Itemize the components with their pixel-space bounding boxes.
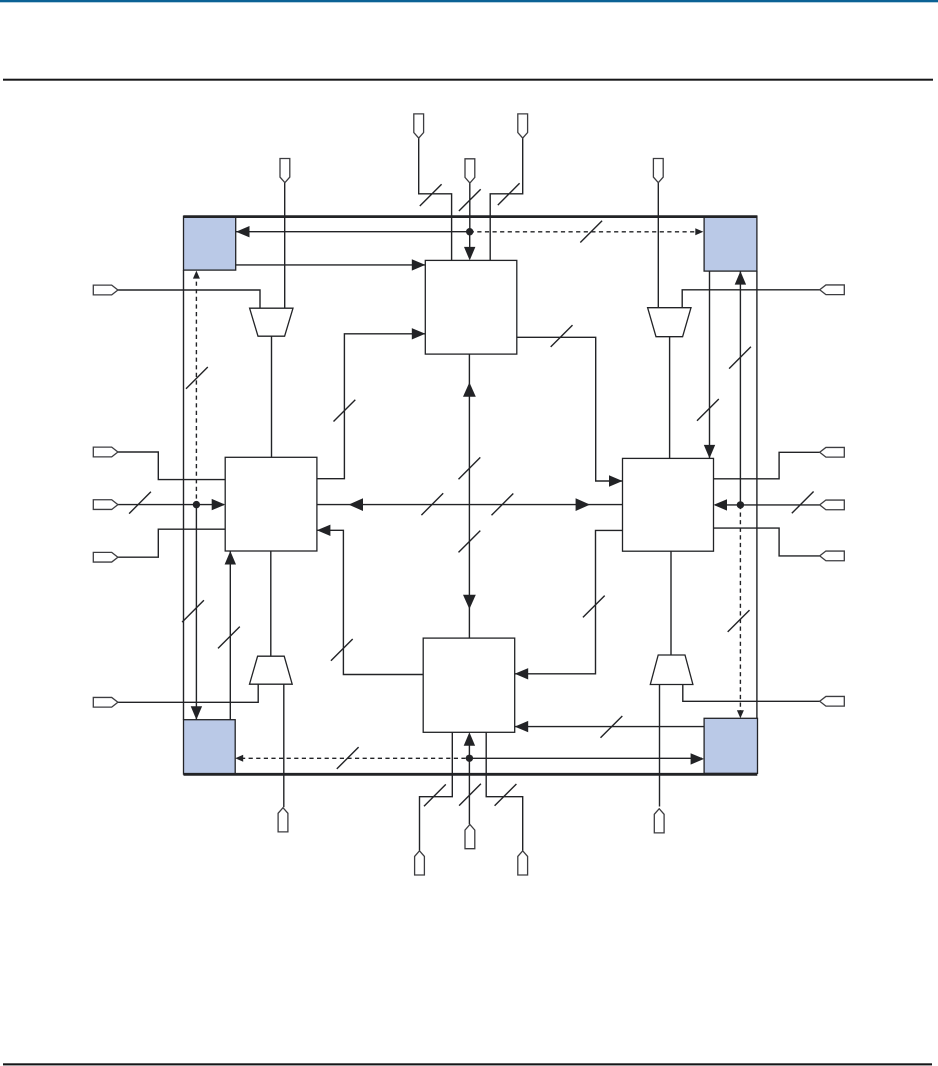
wire pad TRmux to mux top-right xyxy=(657,183,659,308)
bus slash R2 xyxy=(792,492,814,514)
pad T3 xyxy=(518,114,528,138)
wire right vertical rail xyxy=(756,271,758,718)
wire pad T1 to top block xyxy=(419,138,452,260)
arrow into top block left lower xyxy=(412,328,426,339)
pad R1 xyxy=(820,447,845,457)
bus slash R-B xyxy=(583,596,605,618)
arrow into bottom block bottom xyxy=(464,732,475,746)
bus slash L-T xyxy=(334,400,356,422)
wire top rail xyxy=(184,215,758,218)
dashed wire node A to top-right corner block xyxy=(470,231,698,233)
arrow small into top-left corner block bottom xyxy=(193,271,200,279)
wire top block to right block xyxy=(517,337,623,481)
wire center vertical bus xyxy=(468,354,470,638)
wire top-right corner block to right block xyxy=(709,271,711,458)
wire demux bottom-left to pad BLmux xyxy=(283,684,285,807)
wire bottom rail xyxy=(184,773,758,776)
arrow center bus left xyxy=(349,498,363,511)
arrow center bus right xyxy=(576,498,590,511)
bus slash center-v lower xyxy=(459,531,481,553)
bus slash block-BR xyxy=(601,716,623,738)
arrow into left block bottom xyxy=(225,551,236,565)
bus slash B-L xyxy=(331,639,353,661)
wire node D solid right xyxy=(469,757,702,759)
wire left vertical rail xyxy=(183,270,185,720)
pad R4 xyxy=(820,696,845,706)
arrow small into bottom-right corner block top xyxy=(737,710,744,718)
pad TLmux xyxy=(280,159,290,183)
pad B2 xyxy=(465,825,475,849)
wire pad TLmux to mux top-left xyxy=(284,183,286,309)
pad R2 xyxy=(820,500,845,510)
header rule xyxy=(3,79,933,81)
mux top-left xyxy=(250,308,293,336)
bus slash B1 xyxy=(424,784,446,806)
pad BLmux xyxy=(278,808,288,832)
wire mux top-left output xyxy=(271,336,273,457)
wire node A solid left xyxy=(236,231,470,233)
footer rule xyxy=(3,1063,932,1065)
arrow into left block left xyxy=(212,499,226,510)
corner block top-right xyxy=(704,216,757,271)
arrow center bus down xyxy=(463,595,476,609)
junction node D xyxy=(466,755,473,762)
bus slash B2 xyxy=(459,784,481,806)
pad L0 xyxy=(93,285,118,295)
bus slash inner right xyxy=(697,399,719,421)
header color bar xyxy=(0,0,938,2)
junction node C xyxy=(737,501,744,508)
wire bottom block to left block xyxy=(317,530,423,674)
arrow into top-left corner block xyxy=(236,226,250,237)
wire pad R1 to right block xyxy=(714,452,820,479)
pad L3 xyxy=(93,552,118,562)
corner block bottom-right xyxy=(704,718,757,773)
arrow into right block right xyxy=(714,499,728,510)
pad BRmux xyxy=(654,809,664,833)
bus slash T1 xyxy=(420,184,442,206)
bus slash T-R xyxy=(551,325,573,347)
wire pad R3 to right block xyxy=(714,528,820,556)
bus slash left dashed xyxy=(186,367,208,389)
pad L2 xyxy=(93,500,118,510)
arrow into bottom block right upper xyxy=(515,668,529,679)
dashed wire node D to bottom-left corner block xyxy=(241,757,469,759)
dashed wire left column xyxy=(195,274,197,505)
bus slash bottom dashed xyxy=(337,747,359,769)
arrow into top block left upper xyxy=(412,259,426,270)
logic block left xyxy=(225,457,317,551)
pad TRmux xyxy=(653,159,663,183)
pad B1 xyxy=(415,851,425,875)
wire node C to top-right corner block xyxy=(739,271,741,505)
bus slash center-h right xyxy=(492,494,514,516)
arrow into left block right xyxy=(317,525,331,536)
pad R0 xyxy=(820,285,845,295)
corner block bottom-left xyxy=(184,720,236,774)
arrow center bus up xyxy=(463,382,476,396)
wire left column lower xyxy=(195,505,197,720)
wire pad R2 to right block xyxy=(715,504,820,506)
wire bottom block to bottom-right corner block xyxy=(515,726,704,728)
bus slash T2 xyxy=(459,189,481,211)
bus slash B3 xyxy=(495,784,517,806)
bus slash center-h left xyxy=(421,493,443,515)
pad L1 xyxy=(93,447,118,457)
bus slash T3 xyxy=(498,183,520,205)
arrow into bottom-left corner block top xyxy=(191,706,202,720)
demux bottom-right xyxy=(650,655,693,685)
pad T2 xyxy=(465,159,475,183)
logic block bottom xyxy=(423,638,515,732)
wire left block to top block xyxy=(317,334,425,479)
arrow into right block left xyxy=(609,475,623,486)
wire pad L0 to mux top-left xyxy=(118,290,260,308)
arrow into bottom block right lower xyxy=(515,721,529,732)
wire node D to bottom block xyxy=(468,745,470,758)
wire demux bottom-right to pad R4 xyxy=(683,685,820,702)
bus slash center-v upper xyxy=(459,457,481,479)
wire node A to top block xyxy=(469,232,471,250)
bus slash inner left xyxy=(218,627,240,649)
wire demux bottom-right to pad BRmux xyxy=(659,685,661,807)
wire center horizontal bus xyxy=(317,504,623,506)
wire pad B1 to bottom block xyxy=(420,732,453,850)
arrow small into top-right corner block xyxy=(695,228,703,235)
wire pad L3 to left block xyxy=(118,529,225,557)
wire demux bottom-left to pad L4 xyxy=(118,684,258,702)
wire pad R0 to mux top-right xyxy=(682,290,820,308)
dashed wire right column lower xyxy=(739,505,741,713)
pad B3 xyxy=(518,851,528,875)
pad T1 xyxy=(414,114,424,138)
logic block top xyxy=(425,260,517,354)
wire pad L1 to left block xyxy=(118,452,225,480)
wire pad T2 stem xyxy=(469,183,471,232)
arrow into bottom-right corner block left xyxy=(691,753,705,764)
wire pad B2 stem xyxy=(468,758,470,824)
bus slash top dashed xyxy=(580,221,602,243)
bus slash right column upper xyxy=(729,347,751,369)
pad R3 xyxy=(820,551,845,561)
arrow into top-right corner block bottom xyxy=(735,271,746,285)
wire pad L2 to left block xyxy=(118,504,224,506)
corner block top-left xyxy=(184,216,236,270)
junction node B xyxy=(193,501,200,508)
bus slash left lower xyxy=(182,600,204,622)
wire pad T3 to top block xyxy=(490,138,523,260)
arrow into top block top xyxy=(464,247,475,261)
arrow small into bottom-left corner block right xyxy=(235,755,243,762)
mux top-right xyxy=(648,308,691,337)
wire pad B3 to bottom block xyxy=(486,732,523,850)
wire left block to demux bottom-left xyxy=(270,551,272,656)
pad L4 xyxy=(93,697,118,707)
logic block right xyxy=(623,458,714,551)
wire top-left corner block to top block xyxy=(236,264,426,266)
wire right block to bottom block xyxy=(515,530,623,673)
wire mux top-right output xyxy=(669,337,671,459)
bus slash L2 xyxy=(129,492,151,514)
wire right block to demux bottom-right xyxy=(670,551,672,655)
wire bottom-left corner block to left block xyxy=(229,551,231,720)
arrow into right block top xyxy=(704,445,715,459)
bus slash right dashed xyxy=(728,610,750,632)
junction node A xyxy=(466,228,473,235)
demux bottom-left xyxy=(250,656,293,684)
